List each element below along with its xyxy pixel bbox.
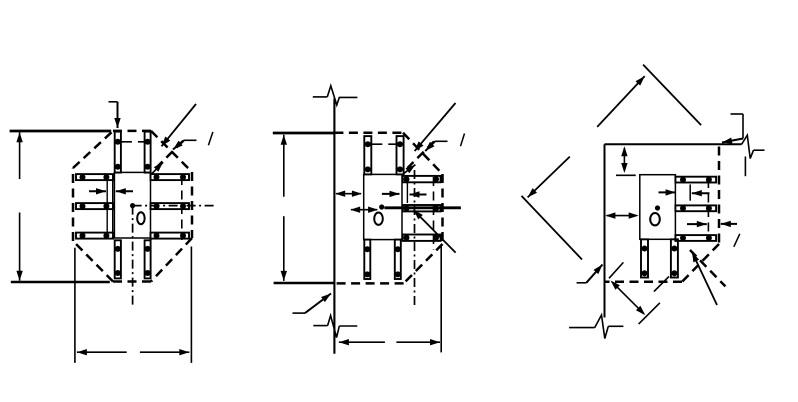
fig2 batter direction arrow [403,165,415,174]
fig2 bottom dimension [339,341,385,343]
fig1 bottom dimension [77,351,127,353]
fig3 leader to left wall face [577,282,587,284]
fig2 pile-cap outline (dashed, cut by wall) [334,133,442,284]
fig2 right extension line [440,247,442,353]
fig2 slash label [461,134,465,147]
fig1 vertical dimension [19,132,21,179]
fig1 base plate [114,172,150,238]
fig1 top stud pair [115,132,151,173]
fig2 vertical dimension [283,135,285,197]
fig3 slope indicator arrow (top) [597,76,645,127]
fig2 eccentricity arrow at center [351,209,377,211]
fig2 center point 0 [374,204,384,225]
fig1 vertical centerline [132,206,134,305]
fig2 long leader arrow [415,103,456,151]
fig1 bottom datum line [11,281,110,283]
fig3 leader to top wall face [731,113,744,115]
fig3 slope line (left) [522,196,583,260]
fig1 leader to top stud [109,101,118,103]
fig2 leader to wall face [293,312,306,314]
fig2 base plate [364,174,402,239]
fig3 top edge distance arrow [623,148,625,171]
fig2 wall edge line with breaks [313,86,358,354]
fig2 bottom datum line [274,282,335,284]
fig2 top datum line [273,132,335,135]
fig1 long leader arrow [162,104,197,146]
fig2 offset centerline (vertical) [414,170,416,306]
fig1 short leader arrow [184,139,197,141]
fig3 batter tick line [654,276,669,291]
fig1 slash label [208,132,213,145]
fig3 right stud rows [675,177,716,241]
fig3 center point 0 [650,205,660,225]
fig1 stud width arrows [89,190,106,192]
fig3 batter pile at corner (dashed) [690,250,725,286]
fig1 center point 0 [130,203,145,224]
fig3 slope line (top) [643,65,701,126]
fig1 horizontal centerline [133,205,216,207]
fig1 batter direction arrow [152,162,164,174]
fig3 slope indicator arrow (left) [528,157,570,198]
fig1 right stud rows [151,174,190,240]
fig1 pile-cap outline (dashed octagon) [73,131,192,282]
fig3 leader to corner pile [692,252,717,305]
fig1 bottom stud pair [115,240,151,278]
fig3 bottom stud pair [641,239,678,277]
fig2 top stud pair [364,136,403,174]
fig3 stud width arrows [659,191,676,193]
fig3 left edge distance arrow [607,215,637,217]
fig3 tick at lower end [639,303,660,324]
fig3 pile-cap outline (dashed, corner cut) [605,147,720,282]
fig2 edge distance arrow (wall to plate) [336,193,361,195]
fig3 tick at upper end [609,262,623,278]
fig3 base plate [640,175,676,240]
fig2 batter pile at corner (dashed) [408,142,435,169]
fig3 diagonal offset dimension [612,282,644,314]
fig1 batter pile at corner (dashed) [157,141,183,167]
fig2 right stud rows [403,176,441,250]
fig3 top wall edge with break [605,135,765,176]
fig2 leader to centerline junction [414,210,456,253]
fig2 short leader arrow [435,140,448,142]
fig2 bottom stud pair [364,240,401,279]
fig3 left wall edge with break [569,144,623,338]
fig3 slash label [734,234,740,247]
fig1 bottom extension lines [74,248,76,363]
fig1 top datum line [10,130,112,133]
fig2 stud width arrows [382,193,400,195]
fig2 center axis line (horizontal) [384,206,461,209]
fig1 left stud rows [76,174,113,239]
